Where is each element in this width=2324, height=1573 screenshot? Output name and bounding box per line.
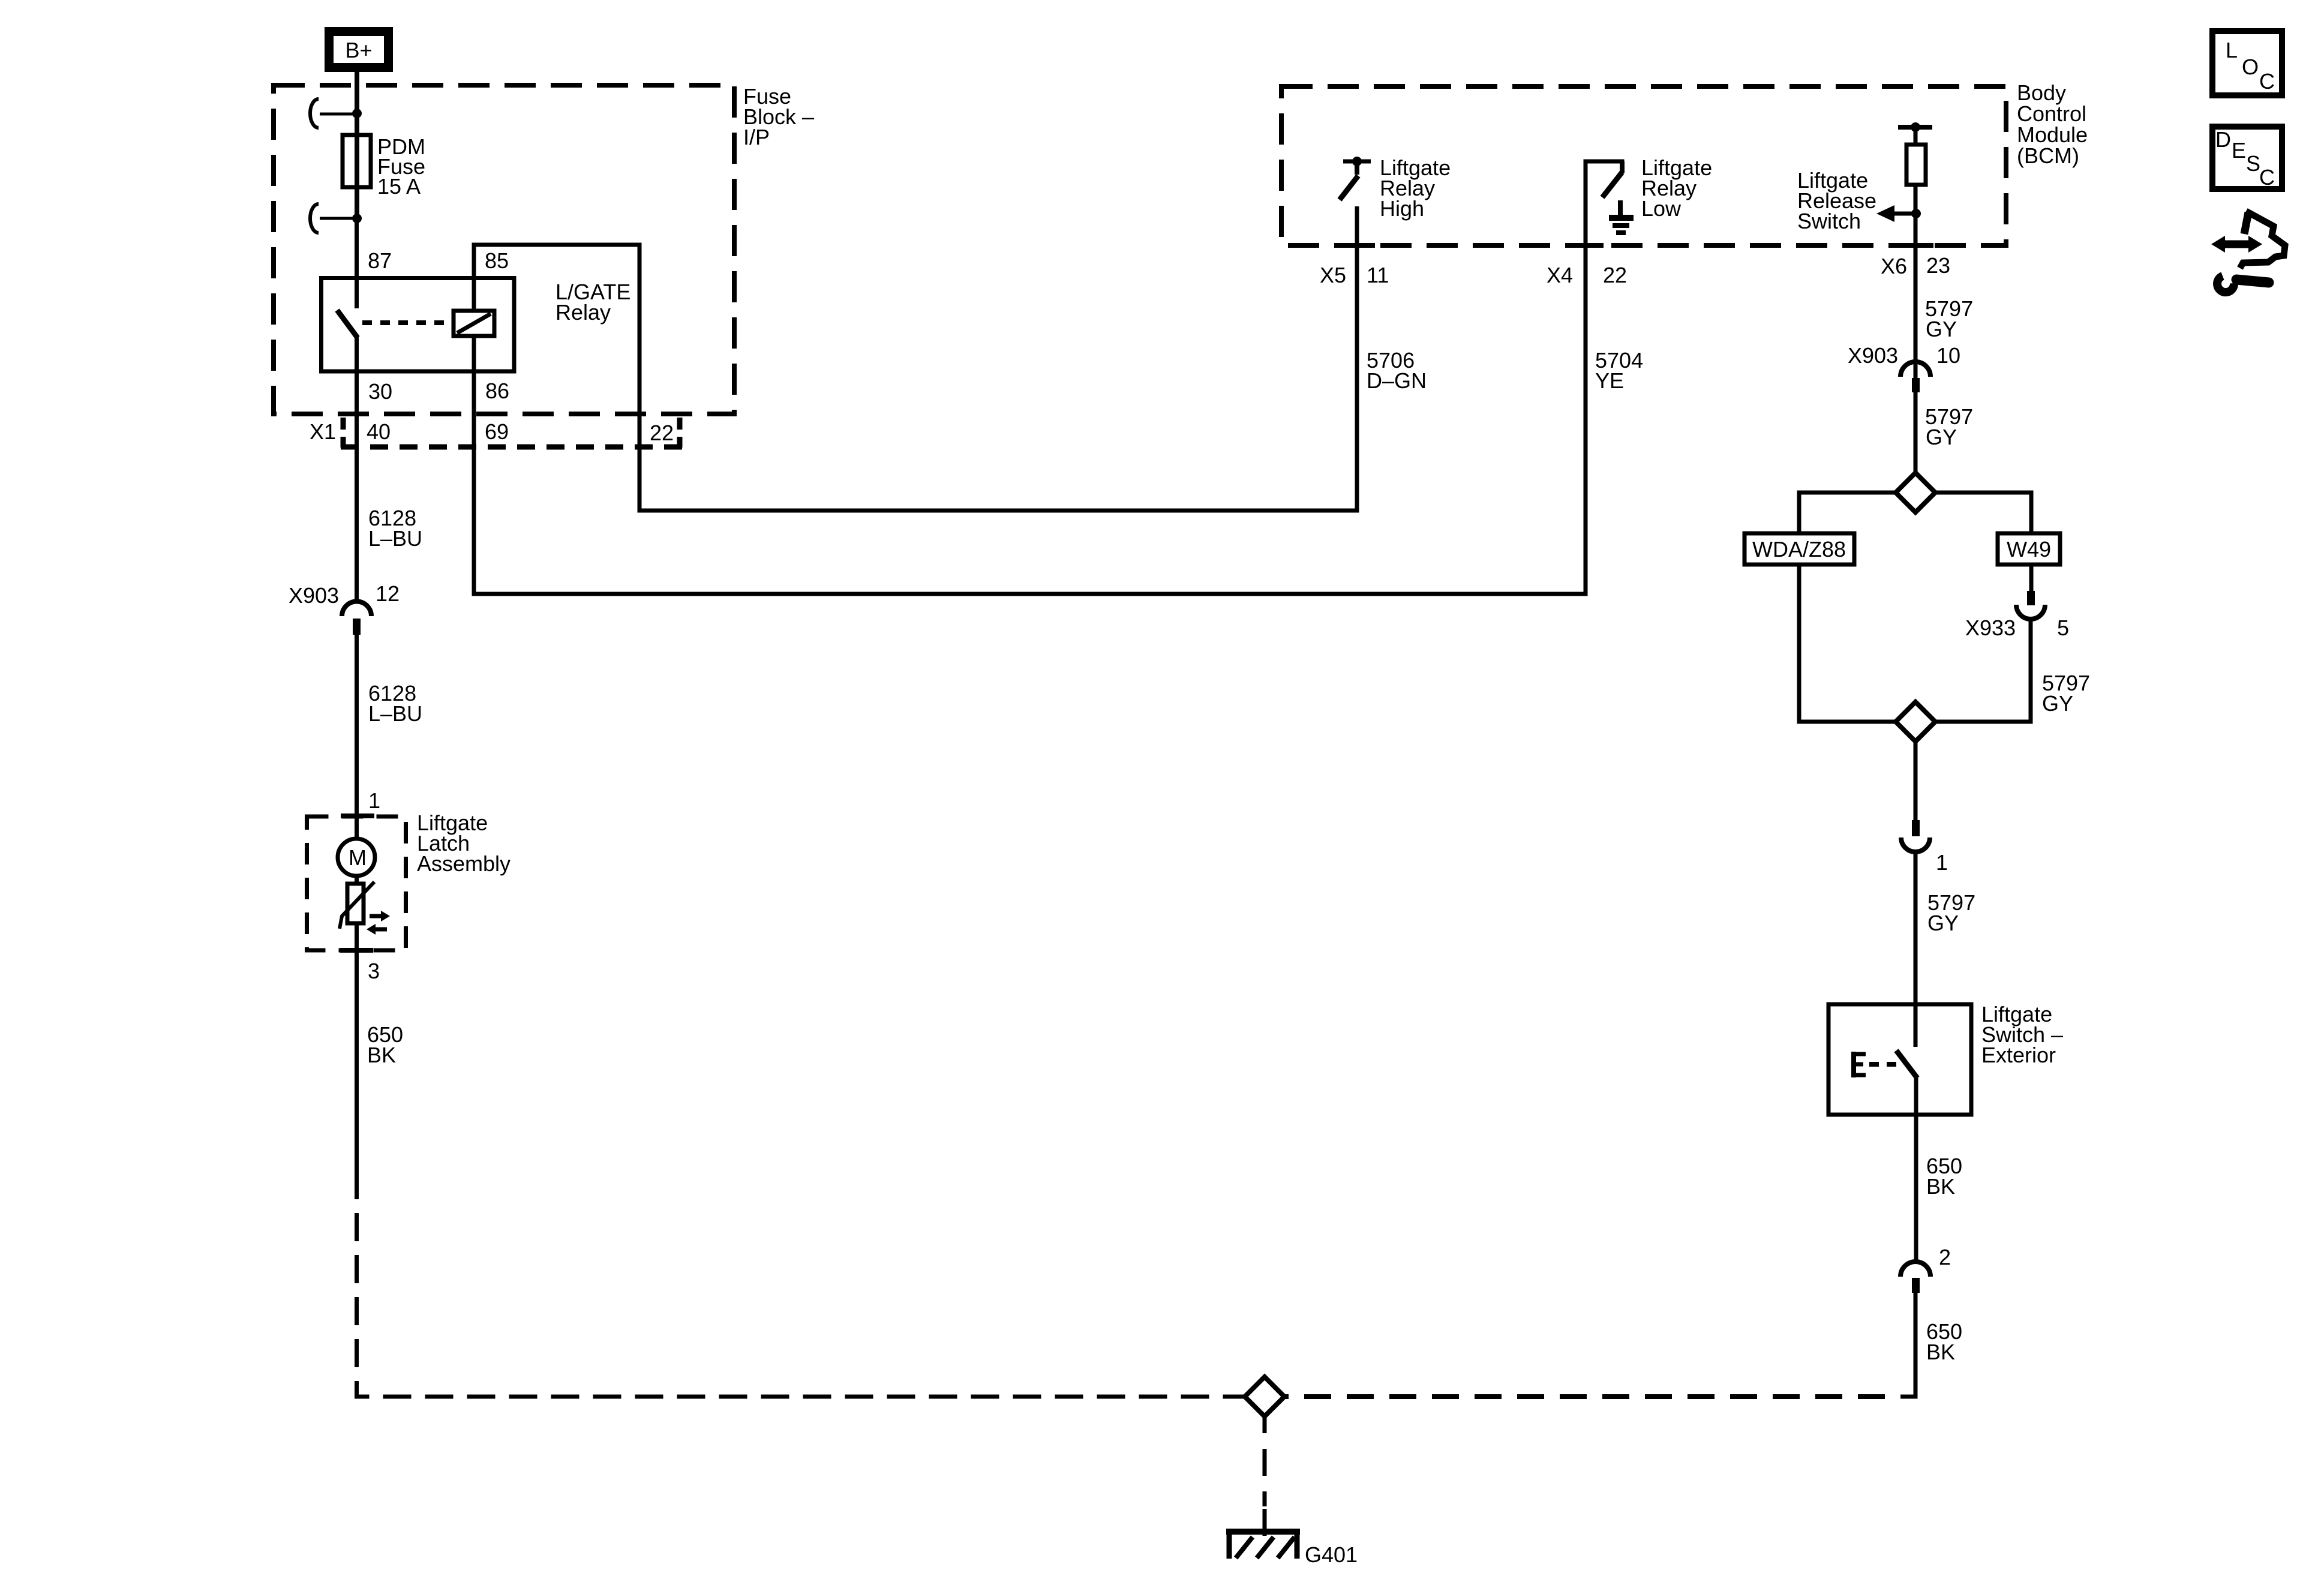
svg-text:L–BU: L–BU — [368, 526, 422, 551]
BCM dashed box — [1281, 80, 2088, 245]
dashed wire to G401 — [1263, 1416, 1267, 1536]
in-line connector pin 1 — [1901, 820, 1948, 875]
splice diamond upper — [1896, 473, 1935, 512]
svg-text:11: 11 — [1367, 263, 1389, 287]
svg-text:X5: X5 — [1320, 263, 1346, 287]
B+ battery feed symbol — [329, 32, 389, 68]
wire label 5797 GY (to switch) — [1927, 890, 1975, 935]
svg-text:D: D — [2215, 127, 2231, 152]
svg-text:X933: X933 — [1965, 616, 2016, 640]
svg-text:2: 2 — [1939, 1245, 1951, 1269]
wire: relay 30 down to X903-12 — [355, 336, 359, 601]
svg-text:GY: GY — [1926, 425, 1957, 449]
wire: X903-12 to latch — [355, 635, 359, 839]
wire: X903-10 to splice — [1914, 392, 1918, 473]
svg-text:BK: BK — [1926, 1340, 1955, 1364]
wire: relay high pin to X5-11 — [1355, 206, 1359, 245]
wire label 650 BK (above conn 2) — [1926, 1154, 1962, 1199]
pin label X5-11 — [1320, 263, 1389, 287]
fuse block I/P dashed box — [274, 84, 814, 414]
wire label 6128 L-BU lower — [368, 681, 422, 726]
LOC legend box — [2212, 31, 2282, 95]
latch travel arrows — [367, 911, 390, 935]
wire: lower splice to connector 1 — [1914, 742, 1918, 820]
relay switch blade — [337, 310, 358, 338]
svg-text:E: E — [2232, 138, 2246, 163]
svg-text:W49: W49 — [2007, 537, 2051, 562]
svg-text:Low: Low — [1641, 196, 1682, 221]
liftgate relay low driver contact — [1602, 155, 1712, 221]
svg-text:Switch: Switch — [1797, 209, 1861, 233]
motor M in latch — [338, 839, 375, 876]
wire label 5797 GY (W49 branch) — [2042, 671, 2090, 716]
svg-text:X6: X6 — [1881, 254, 1907, 278]
switch stub inside box — [1914, 1004, 1918, 1047]
connector X1 line — [310, 418, 682, 448]
connector X903-10 — [1848, 343, 1960, 392]
svg-text:X903: X903 — [289, 583, 339, 608]
wire: splice to WDA/Z88 — [1799, 493, 1896, 533]
pin tick X4 — [1568, 243, 1604, 248]
wire: WDA/Z88 down to lower splice — [1799, 565, 1896, 722]
svg-text:BK: BK — [1926, 1174, 1955, 1199]
svg-text:L: L — [2226, 38, 2238, 62]
svg-text:5: 5 — [2057, 616, 2069, 640]
svg-text:C: C — [2259, 165, 2275, 190]
svg-text:87: 87 — [368, 248, 392, 273]
fuse clip lower — [310, 204, 362, 233]
splice diamond lower — [1896, 702, 1935, 742]
svg-text:S: S — [2246, 151, 2260, 176]
wire: fuse to relay pin 87 — [355, 218, 359, 308]
wire: latch pin 3 down (650 BK) — [355, 923, 359, 1199]
wire: release switch to X6-23 and down — [1914, 185, 1918, 473]
svg-text:O: O — [2242, 55, 2259, 79]
connector X903-12 — [289, 581, 400, 635]
svg-text:X4: X4 — [1547, 263, 1573, 287]
svg-text:WDA/Z88: WDA/Z88 — [1752, 537, 1846, 562]
wire: switch down to connector 2 (650 BK) — [1914, 1077, 1918, 1262]
DESC legend box — [2212, 127, 2282, 190]
relay actuation dashed link — [362, 320, 451, 325]
connector X933-5 — [1965, 591, 2069, 640]
svg-text:10: 10 — [1936, 343, 1960, 368]
svg-text:M: M — [349, 845, 367, 870]
wire: B+ to fuse — [355, 72, 359, 218]
wire: connector 2 to ground bus — [1900, 1293, 1915, 1397]
wire: X933-5 down to lower splice — [1935, 619, 2031, 722]
wire label 5706 D-GN — [1367, 348, 1427, 393]
svg-text:30: 30 — [368, 379, 392, 404]
fuse clip upper — [310, 99, 362, 128]
wire: relay 85 up over to BCM X5-11 (circuit 5706) — [474, 206, 1357, 511]
switch blade — [1896, 1050, 1917, 1078]
svg-text:23: 23 — [1926, 253, 1950, 278]
svg-text:1: 1 — [368, 788, 380, 813]
fuse F: PDM Fuse 15 A — [343, 134, 425, 199]
wire label 5797 GY (X903 to splice) — [1925, 404, 1973, 449]
svg-text:X903: X903 — [1848, 343, 1898, 368]
relay K: L/GATE Relay box — [322, 278, 631, 372]
svg-text:40: 40 — [367, 419, 391, 444]
relay coil — [454, 311, 494, 336]
svg-text:GY: GY — [1926, 317, 1957, 341]
svg-text:High: High — [1380, 196, 1424, 221]
svg-text:D–GN: D–GN — [1367, 368, 1427, 393]
switch E actuator glyph — [1851, 1052, 1866, 1077]
dashed ground bus right — [1284, 1394, 1900, 1399]
liftgate release switch arrow — [1797, 168, 1921, 233]
svg-text:L–BU: L–BU — [368, 701, 422, 726]
wire label 650 BK (below conn 2) — [1926, 1319, 1962, 1364]
wire label 6128 L-BU upper — [368, 506, 422, 551]
ground G401 — [1226, 1529, 1358, 1567]
svg-text:C: C — [2259, 69, 2275, 94]
svg-text:22: 22 — [1603, 263, 1627, 287]
in-line connector pin 2 — [1900, 1245, 1951, 1293]
svg-text:G401: G401 — [1305, 1542, 1358, 1567]
svg-text:15 A: 15 A — [377, 174, 421, 199]
svg-text:X1: X1 — [310, 419, 336, 444]
dashed ground distribution wire left — [357, 1199, 1245, 1397]
pin tick X5 — [1339, 243, 1375, 248]
liftgate latch assembly dashed box — [307, 810, 511, 950]
liftgate release switch input: resistor — [1898, 122, 1932, 185]
svg-text:GY: GY — [1927, 911, 1959, 935]
pin label X4-22 — [1547, 263, 1627, 287]
svg-text:(BCM): (BCM) — [2017, 143, 2079, 168]
liftgate relay high driver contact — [1340, 155, 1451, 221]
switch actuation dashed link — [1869, 1062, 1904, 1067]
wire: splice to W49 — [1935, 493, 2031, 591]
net box WDA/Z88 — [1744, 533, 1854, 565]
svg-text:B+: B+ — [345, 38, 372, 62]
wire label 5704 YE — [1595, 348, 1643, 393]
svg-text:22: 22 — [650, 421, 674, 445]
svg-text:69: 69 — [485, 419, 509, 444]
svg-text:I/P: I/P — [743, 125, 770, 149]
chassis ground inside BCM — [1609, 200, 1634, 233]
svg-text:YE: YE — [1595, 368, 1624, 393]
svg-text:85: 85 — [485, 248, 509, 273]
svg-text:Relay: Relay — [556, 300, 611, 325]
svg-text:12: 12 — [376, 581, 400, 606]
svg-text:3: 3 — [368, 959, 380, 983]
wire label 650 BK left — [367, 1022, 403, 1067]
liftgate switch exterior box — [1828, 1002, 2063, 1115]
svg-text:Assembly: Assembly — [417, 851, 511, 876]
net box W49 — [1998, 533, 2060, 565]
svg-text:BK: BK — [367, 1043, 396, 1067]
pin label X6-23 — [1881, 253, 1950, 278]
svg-text:1: 1 — [1936, 850, 1948, 875]
wire: connector 1 to liftgate switch — [1914, 852, 1918, 1004]
service icon: panel with arrow and wrench — [2211, 211, 2285, 292]
wire: relay 86 down over to BCM X4-22 (circuit 5704) — [474, 161, 1622, 594]
svg-text:Exterior: Exterior — [1981, 1043, 2056, 1067]
pin tick X6 — [1897, 243, 1933, 248]
latch thermal element — [340, 876, 374, 929]
svg-text:86: 86 — [485, 379, 509, 403]
wire label 5797 GY (X6 to X903) — [1925, 296, 1973, 341]
svg-text:GY: GY — [2042, 691, 2073, 716]
ground splice diamond — [1245, 1377, 1284, 1416]
